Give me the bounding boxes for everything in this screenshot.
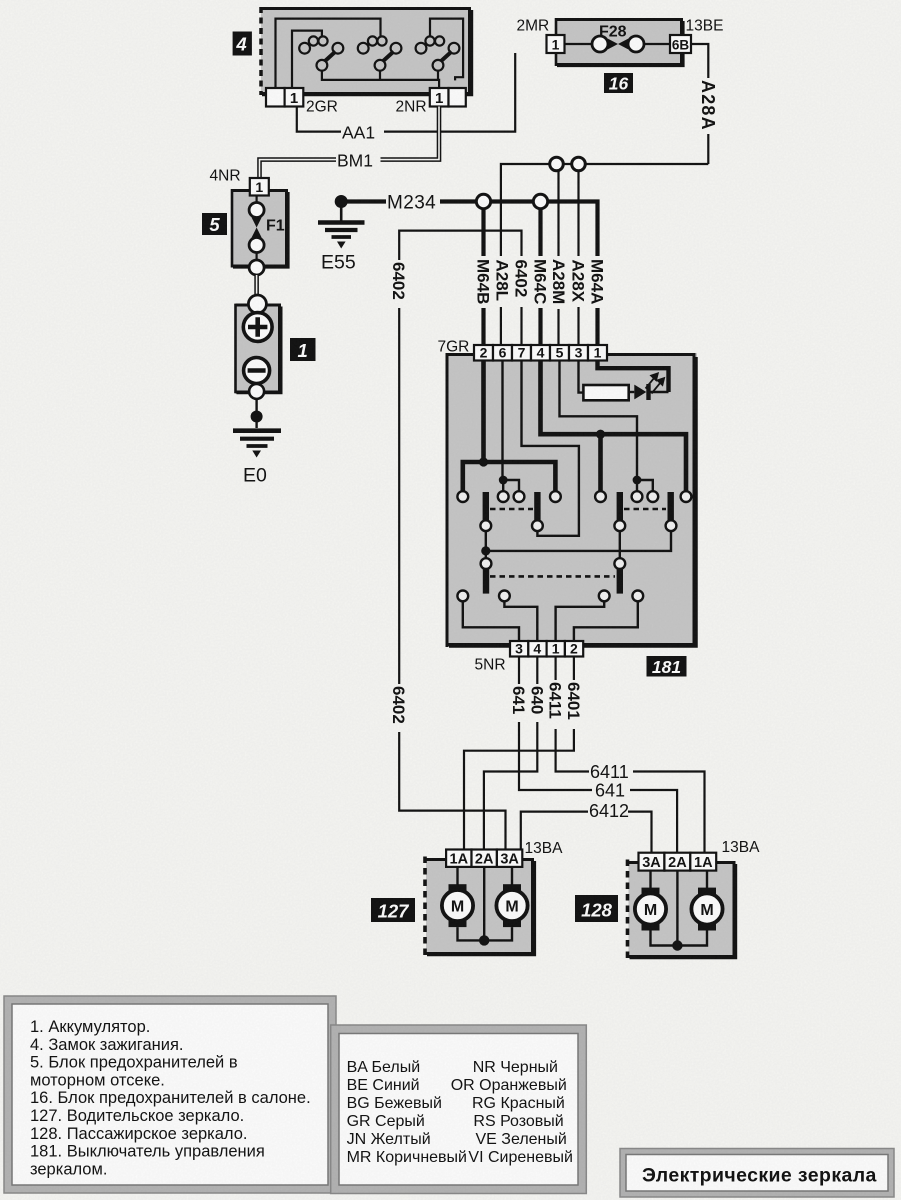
wire A28X pin 3 bbox=[577, 164, 579, 345]
wire 6411 from pin 1 to mirror 128 pin 1A bbox=[556, 657, 589, 772]
node battery ground junction bbox=[251, 411, 263, 423]
wire 641 from pin 3 to mirror 128 pin 2A bbox=[519, 657, 592, 791]
mirror 127 motor 2 bbox=[496, 867, 527, 927]
connector pin 1 of fusebox 5 bbox=[250, 178, 269, 196]
wire A28A bbox=[691, 44, 718, 164]
node M234 / ground E55 bbox=[318, 193, 436, 274]
mirror 128 connector 3A bbox=[639, 853, 665, 871]
wire label A28L bbox=[493, 256, 512, 307]
181 internal: pin6 fork branches bbox=[503, 480, 519, 492]
ground E0 bbox=[233, 431, 281, 487]
connector pin box (blank) right under switch 4 bbox=[449, 88, 466, 107]
mirror 128 connector 1A bbox=[690, 853, 716, 871]
181 internal: pin7 wire bbox=[522, 361, 579, 536]
wire fusebox 5 to battery (double line) bbox=[254, 275, 259, 303]
181 internal: wire contact to pin 1 bottom bbox=[556, 601, 605, 641]
battery minus pole bbox=[244, 358, 270, 384]
tag 16 bbox=[604, 73, 633, 94]
181 internal: wire contact to pin 4 bottom bbox=[504, 601, 537, 641]
181 internal: common link left bbox=[485, 531, 487, 547]
181 internal: common link horizontal bbox=[486, 531, 671, 551]
junction circle on A28 at A28M bbox=[550, 157, 564, 171]
wire M64C pin 4 bbox=[538, 202, 542, 346]
mirror 128 common return wires bbox=[651, 931, 708, 946]
fusebox 16 body bbox=[556, 18, 683, 66]
181 lower dashed link bbox=[490, 575, 615, 578]
tag 4 bbox=[233, 32, 252, 56]
junction circle on A28 at A28X bbox=[572, 157, 586, 171]
ignition switch 4 body bbox=[261, 7, 472, 95]
181 internal: pin6 fork node bbox=[499, 476, 508, 485]
LED cathode bar bbox=[646, 384, 650, 400]
mirror 127 motor 1 bbox=[442, 867, 473, 927]
ignition switch contact set 2 bbox=[358, 36, 402, 70]
mirror 128 motor 1 bbox=[635, 871, 666, 931]
wire label 6402 upper left bbox=[389, 260, 408, 308]
legend box wire colours bbox=[331, 1025, 587, 1194]
title box bbox=[620, 1149, 894, 1198]
181 internal: pin5 wire bbox=[560, 361, 638, 479]
181 internal: pin3 wire to resistor bbox=[579, 361, 584, 393]
connector pin 6B of fusebox 16 bbox=[670, 35, 691, 53]
181 switch bar upper 1 bbox=[483, 492, 489, 521]
battery top terminal circle bbox=[248, 295, 266, 313]
181 switch bar upper 4 bbox=[668, 492, 674, 521]
LED triangle bbox=[634, 385, 646, 400]
181 internal: pin5 fork node bbox=[633, 476, 642, 485]
wire label 6412 horizontal bbox=[588, 801, 629, 821]
181 switch bar lower 2 bbox=[617, 569, 623, 594]
mirror 128 motor 2 bbox=[691, 871, 722, 931]
tag 5 bbox=[202, 213, 227, 235]
mirror 127 connector 2A bbox=[472, 850, 497, 867]
wire BM1 (double line) bbox=[260, 107, 440, 179]
mirror 127 connector 3A bbox=[497, 850, 522, 867]
181 internal: LED cathode link bbox=[651, 391, 669, 393]
181 internal: wire resistor to LED bbox=[629, 391, 635, 393]
181 internal: pin2 thick wire and U-bus bbox=[481, 361, 486, 463]
wire label 641 vertical bbox=[509, 684, 528, 722]
ignition switch contact set 1 bbox=[299, 36, 343, 70]
wire 6412 from mirror 127 pin 3A to mirror 128 pin 3A bbox=[521, 812, 652, 853]
junction circle on M234 at M64B bbox=[476, 194, 490, 208]
181 upper dashed links bbox=[490, 508, 533, 511]
181 internal: pin4 thick wire bbox=[541, 361, 687, 492]
181 internal: pin4 junction node bbox=[596, 430, 605, 439]
fusebox 5 body bbox=[232, 189, 288, 268]
mirror 127 connector 1A bbox=[446, 850, 471, 867]
181 upper contact circles bbox=[457, 491, 691, 502]
181 internal: pin6 wire bbox=[501, 361, 503, 479]
wire M64B pin 2 bbox=[481, 202, 485, 346]
wire A28 feed line to pins 6,5,3 bbox=[501, 164, 708, 345]
181 internal: resistor bbox=[583, 385, 628, 400]
mirror 127 body bbox=[425, 857, 534, 957]
tag 127 bbox=[371, 898, 415, 922]
fuse F28 bbox=[565, 24, 671, 53]
wire label 6411 vertical bbox=[546, 680, 565, 729]
wire 6401 from pin 2 to mirror 127 pin 1A bbox=[464, 657, 574, 850]
battery bottom terminal circle bbox=[249, 384, 264, 399]
181 internal: wire contact to pin 3 bottom bbox=[463, 601, 519, 641]
181 switch bar upper 3 bbox=[617, 492, 623, 521]
ignition switch internal wire from connector to switch 1 bbox=[292, 31, 322, 95]
connector pin 1 (2GR) under switch 4 bbox=[285, 88, 304, 107]
181 internal: pin5 fork branches bbox=[637, 480, 653, 492]
LED arrows bbox=[646, 373, 665, 393]
mirror 128 connector 2A bbox=[664, 853, 690, 871]
connector pin box (blank) left under switch 4 bbox=[266, 88, 285, 107]
181 internal: pin4 thick drop bbox=[598, 434, 603, 491]
wire label M64C bbox=[531, 256, 550, 308]
mirror switch 181 body bbox=[447, 353, 697, 647]
181 internal: pin2 junction node bbox=[479, 457, 488, 466]
battery plus pole bbox=[243, 313, 272, 342]
connector pin 1 of fusebox 16 bbox=[547, 35, 565, 53]
181 lower moving contact circles bbox=[481, 558, 626, 569]
ignition switch contact set 3 bbox=[416, 36, 460, 70]
wire battery to ground E0 bbox=[255, 399, 257, 428]
tag 181 bbox=[647, 656, 687, 677]
wire AA1 bbox=[297, 53, 515, 143]
wire M234 bus to pin 1 (M64A) bbox=[440, 202, 598, 346]
181 internal: common node bbox=[481, 546, 490, 555]
181 switch bar lower 1 bbox=[483, 569, 489, 594]
181 bottom pin row bbox=[510, 641, 583, 657]
wire label M64B bbox=[474, 256, 493, 308]
wire label 6402 lower left bbox=[389, 684, 408, 732]
ignition switch internal wire switch 3 top bbox=[430, 19, 463, 81]
181 internal: right middle drop bbox=[619, 531, 621, 559]
mirror 127 common return wires bbox=[458, 927, 513, 940]
wire label A28X bbox=[569, 256, 588, 307]
tag 128 bbox=[575, 895, 618, 922]
ignition switch internal wire from connector to switch 2 bbox=[276, 19, 381, 95]
181 switch bar upper 2 bbox=[534, 492, 540, 521]
181 top pin row bbox=[474, 345, 607, 361]
connector pin 1 (2NR) under switch 4 bbox=[430, 88, 449, 107]
181 internal: left middle drop bbox=[485, 551, 487, 559]
181 internal: wire contact to pin 2 bottom bbox=[574, 601, 638, 641]
wire label M64A bbox=[588, 256, 607, 308]
battery 1 body bbox=[236, 304, 281, 394]
wire 6402 from pin 7 down left side to mirrors bbox=[399, 231, 521, 850]
wire label 6402 bbox=[512, 256, 531, 307]
wire label A28M bbox=[549, 256, 568, 309]
wire label 640 vertical bbox=[527, 684, 546, 722]
181 internal: pin1 thick wire to LED frame bbox=[598, 361, 669, 393]
mirror 127 common node bbox=[479, 935, 489, 945]
mirror 128 common node bbox=[672, 940, 682, 950]
ignition switch internal bottom bus to right connector bbox=[322, 71, 439, 88]
wire label 6401 vertical bbox=[564, 680, 583, 729]
181 bottom contact circles bbox=[457, 591, 643, 602]
tag 1 bbox=[290, 338, 316, 361]
mirror 128 body bbox=[628, 860, 736, 960]
junction circle on M234 at M64C bbox=[533, 194, 547, 208]
181 moving contact circles row 2 bbox=[480, 520, 676, 531]
wire A28M pin 5 bbox=[557, 164, 559, 345]
wire 640 from pin 4 to mirror 127 pin 2A bbox=[484, 657, 537, 850]
fuse F1 bbox=[249, 196, 285, 276]
legend box components bbox=[4, 996, 336, 1193]
